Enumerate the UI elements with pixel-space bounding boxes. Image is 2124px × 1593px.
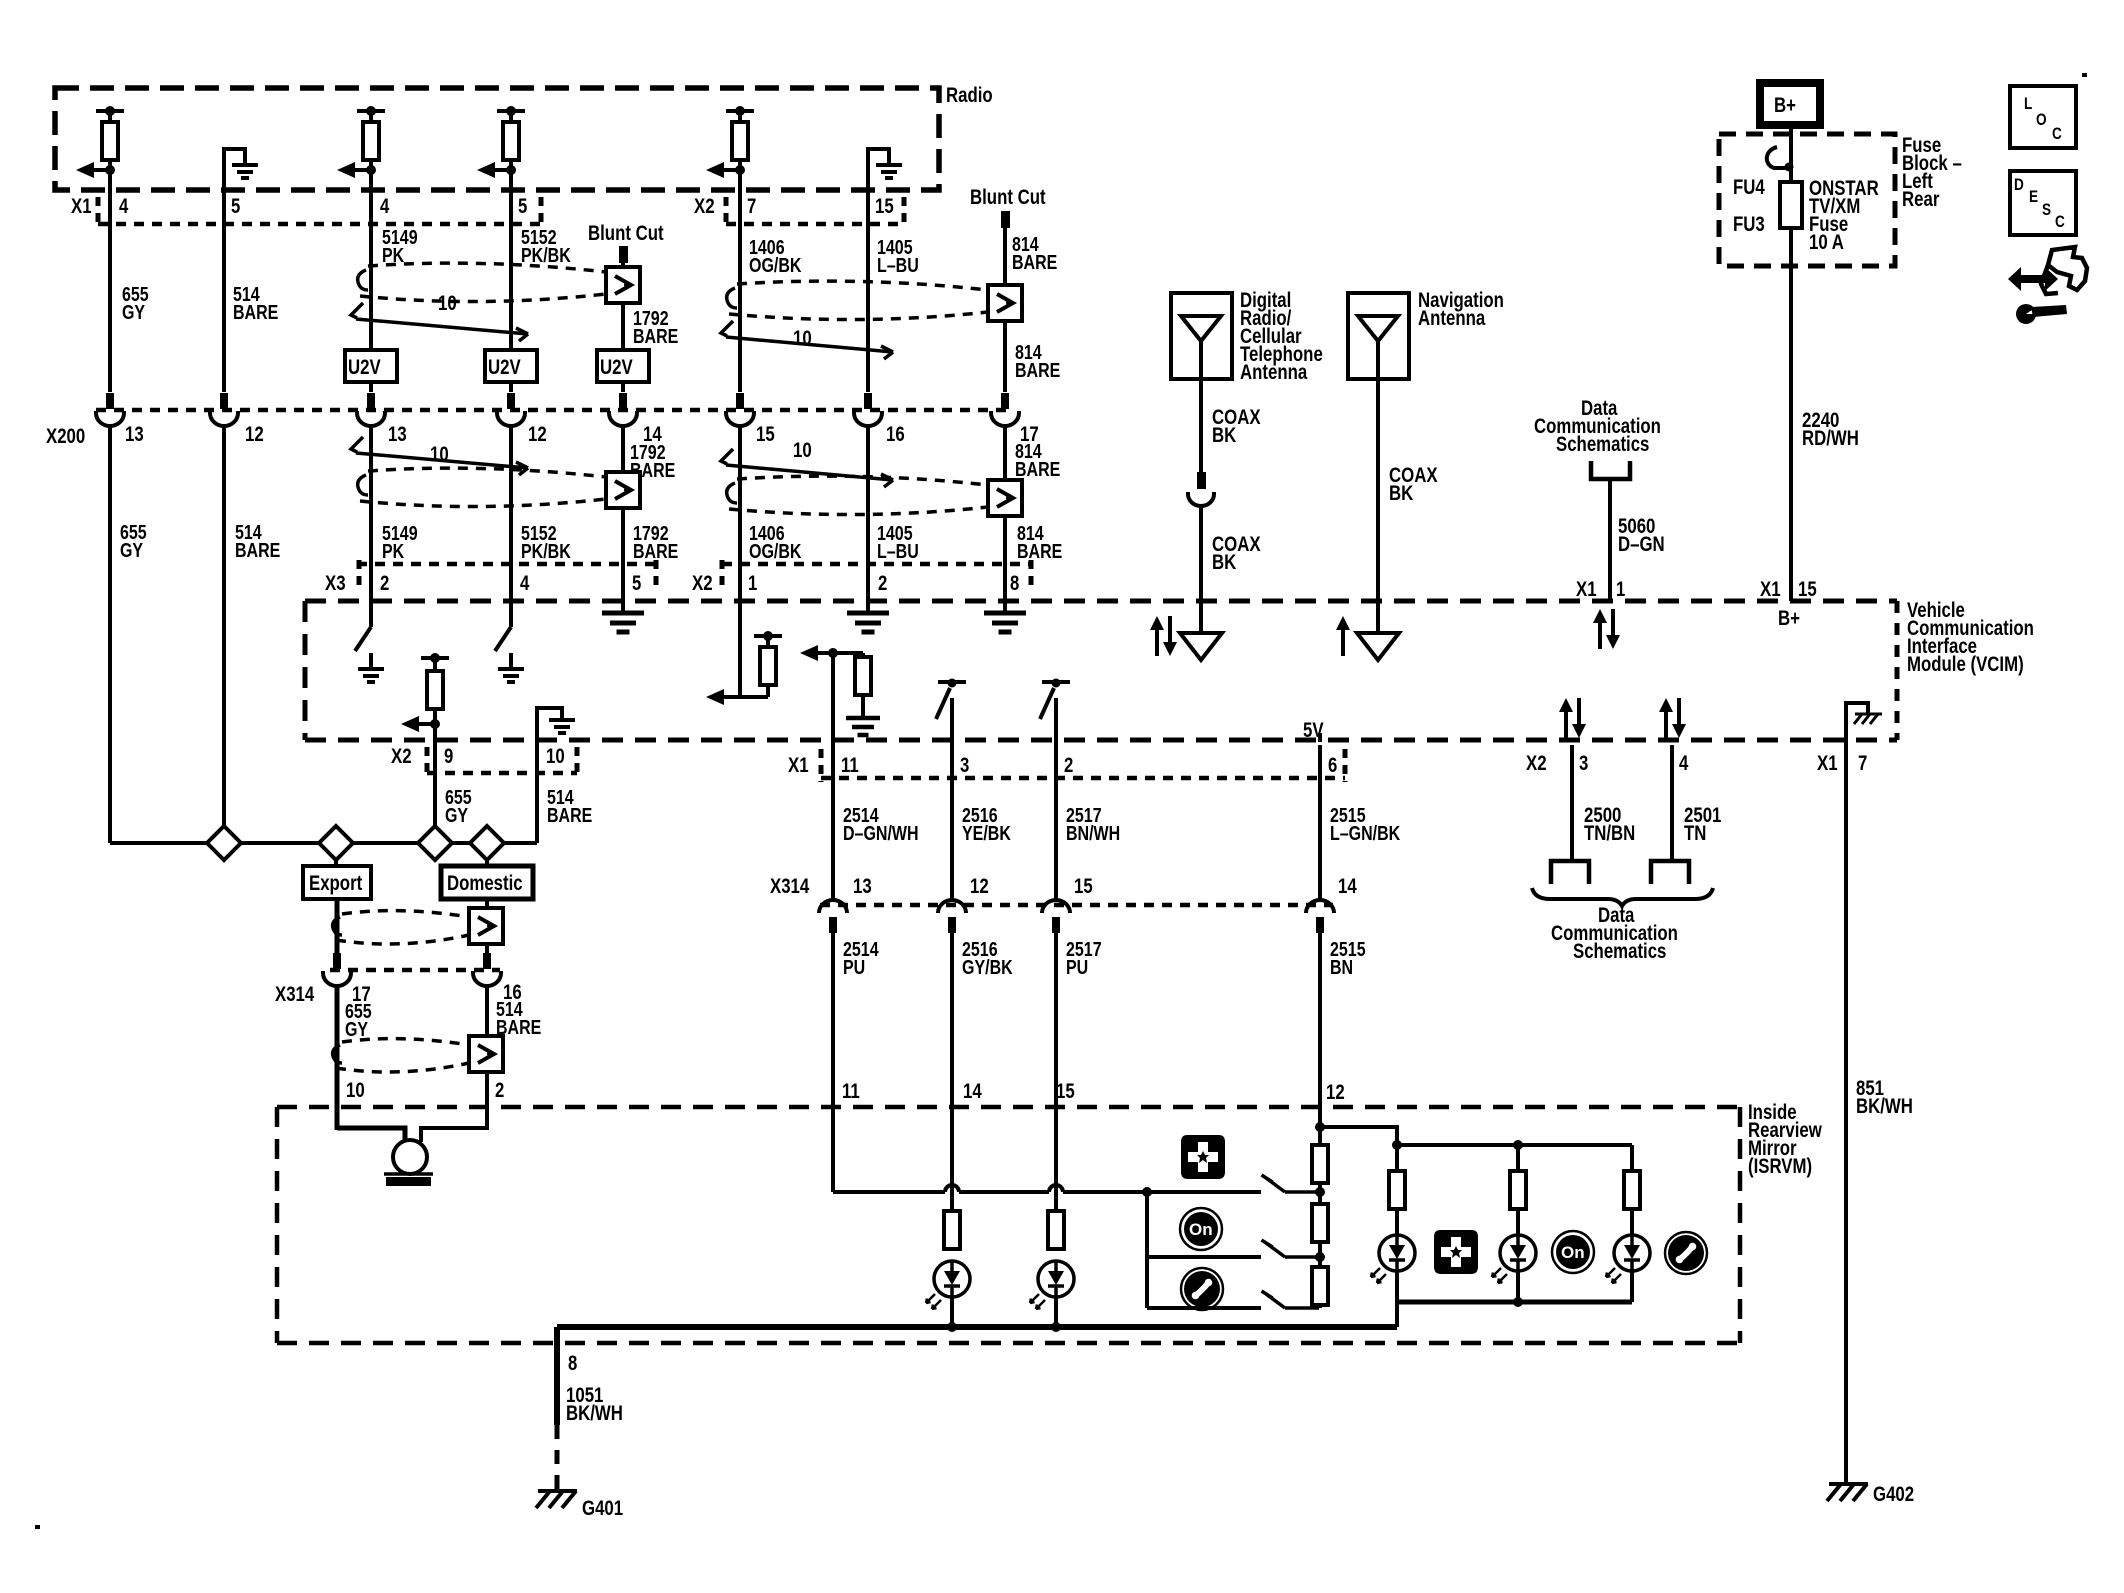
ground (5149) [369,653,373,668]
svg-text:12: 12 [970,875,989,898]
fuse block box [1719,134,1895,266]
hook contact in fuse block [1767,147,1789,168]
svg-text:Blunt Cut: Blunt Cut [588,222,664,245]
connector row X3 [357,562,656,567]
svg-text:BN: BN [1330,957,1353,979]
LED resistor (2516) [944,1211,960,1249]
shield drain box (1792 upper) [606,267,640,303]
X314 pin 16 [473,953,501,986]
wire 655 GY below X314 [335,984,340,1130]
wire 5152 break in VCIM [509,601,513,627]
X200 pin 12 (514) [210,393,238,426]
X200 pin 13 (655) [96,393,124,426]
X200 pin 13b (5149) [357,393,385,426]
svg-text:4: 4 [1679,752,1689,775]
wire 2240 RD/WH [1789,228,1793,601]
ground G402 [1827,1484,1868,1501]
wire 1405 L-BU radio-to-X200 [866,147,870,392]
off-page bracket (5060) [1591,461,1630,479]
wire 514 X2-10 with ground hook in VCIM [535,706,539,843]
ISRVM module box [277,1107,1740,1343]
svg-text:GY/BK: GY/BK [962,957,1013,979]
svg-text:14: 14 [1338,875,1357,898]
resistor in radio (1406) [726,111,754,122]
wire 514 BARE long (to splice) [222,424,226,826]
up-down arrows (X2-4) [1659,698,1673,738]
X314 pin 17 [323,953,351,986]
svg-text:10 A: 10 A [1809,231,1844,254]
X200 pin 15 (1406) [726,393,754,426]
coax wire digital antenna [1199,379,1203,489]
ground (1405) [847,613,889,632]
off-page bracket (2500) [1551,861,1589,884]
twisted pair shield ellipse (5149/5152 upper) [360,263,606,301]
svg-text:X200: X200 [46,425,85,448]
arrow out (5152) [506,165,516,175]
wire 5149 PK radio-to-X200 [369,158,373,392]
twisted leads arrow 10 (left upper) [351,303,528,341]
svg-text:L: L [2024,94,2032,113]
svg-text:PK/BK: PK/BK [521,245,571,267]
arrow out (5149) [366,165,376,175]
svg-text:X2: X2 [694,195,715,218]
twisted pair shield ellipse (1406/1405 upper) [729,281,988,319]
twisted pair shield ellipse (1406/1405 lower) [729,476,988,514]
svg-text:G401: G401 [582,1497,623,1520]
blunt cut stub 1792 [619,246,628,263]
twisted pair shield ellipse (5149/5152 lower) [360,468,606,506]
LED (2517) [1030,1261,1074,1309]
twisted leads arrow 10 (right lower) [721,449,893,487]
svg-text:X1: X1 [788,754,809,777]
B+ box [1760,83,1820,125]
svg-text:L–BU: L–BU [877,255,919,277]
svg-text:Antenna: Antenna [1418,307,1485,330]
chassis ground hook at X1-7 [1846,703,1868,742]
LED branch 2 [1516,1145,1520,1171]
svg-text:(ISRVM): (ISRVM) [1748,1155,1812,1178]
wire 1792 BARE to X3 [621,424,625,612]
switch 1 (emergency) [1262,1175,1320,1192]
chain resistor R1 [1312,1145,1328,1183]
svg-text:5: 5 [231,195,241,218]
svg-text:BARE: BARE [547,805,592,827]
svg-text:13: 13 [388,423,407,446]
svg-text:D–GN/WH: D–GN/WH [843,823,919,845]
resistor above X2-9 [421,658,449,671]
X314 pin 12 [938,900,966,933]
svg-text:PU: PU [843,957,865,979]
twisted shield ellipse (export upper) [336,911,469,944]
tiny dot bottom left [35,1525,40,1529]
LED branch 1 [1395,1145,1399,1171]
svg-text:BARE: BARE [233,302,278,324]
svg-text:10: 10 [546,745,565,768]
twisted leads arrow 10 (left lower) [351,437,528,475]
svg-text:X2: X2 [1526,752,1547,775]
LED bottom rail [1397,1300,1632,1305]
svg-text:8: 8 [568,1352,578,1375]
svg-text:6: 6 [1328,754,1337,777]
svg-text:2: 2 [878,572,887,595]
icon emergency cross (left) [1182,1136,1224,1178]
wire LED rail to bus [1395,1302,1399,1327]
wire 1406 OG/BK radio-to-X200 [738,158,742,392]
svg-text:10: 10 [430,443,449,466]
wire 1051 dashed to ground [555,1425,560,1490]
wire 2500 TN/BN [1570,745,1574,861]
svg-text:14: 14 [963,1080,982,1103]
svg-text:5: 5 [518,195,528,218]
svg-text:BARE: BARE [633,326,678,348]
splice diamond (export) [319,826,353,860]
svg-text:U2V: U2V [348,356,381,379]
switch common wire (from pin 11) [833,1190,945,1194]
svg-text:Blunt Cut: Blunt Cut [970,186,1046,209]
icon OnStar (right) [1552,1231,1594,1273]
svg-text:4: 4 [380,195,390,218]
ground (1792) [602,613,644,632]
svg-text:X1: X1 [71,195,92,218]
Domestic box [485,860,489,866]
svg-text:Schematics: Schematics [1573,940,1666,963]
svg-text:B+: B+ [1774,94,1796,117]
svg-text:9: 9 [444,745,453,768]
resistor in radio (655 output) [96,111,124,122]
svg-text:U2V: U2V [488,356,521,379]
svg-text:BARE: BARE [633,541,678,563]
shield drain box (export upper) [469,908,503,944]
svg-text:X2: X2 [391,745,412,768]
switch branch vertical [1145,1192,1149,1308]
U2V box (5152) [485,350,537,382]
wire 814 BARE to X2 [1003,424,1007,612]
svg-text:L–GN/BK: L–GN/BK [1330,823,1401,845]
svg-text:FU4: FU4 [1733,176,1765,199]
wire 2517 BN/WH [1054,745,1058,900]
svg-text:4: 4 [520,572,530,595]
shield drain box (814 lower) [988,480,1022,516]
wire 2514 from node to X1 pin 11 [831,653,835,745]
svg-text:X2: X2 [692,572,713,595]
digital radio antenna box [1171,293,1232,379]
svg-text:L–BU: L–BU [877,541,919,563]
wire 5149 PK to X3 [369,424,373,601]
svg-text:7: 7 [747,195,756,218]
wire 5060 D-GN [1608,479,1612,601]
svg-text:10: 10 [793,327,812,350]
coax wire navigation [1376,379,1380,633]
arrow out (655) [105,165,115,175]
U2V box (1792) [597,350,649,382]
svg-text:15: 15 [756,423,775,446]
wire 1406 OG/BK to X2 [738,424,742,697]
chain resistor R3 [1312,1267,1328,1305]
svg-text:2: 2 [495,1079,504,1102]
resistor in radio (5152) [497,111,525,122]
svg-text:15: 15 [1074,875,1093,898]
svg-text:15: 15 [1798,578,1817,601]
svg-text:BK: BK [1212,551,1236,574]
wire 2516 YE/BK [950,745,954,900]
svg-text:7: 7 [1858,752,1867,775]
svg-text:G402: G402 [1873,1483,1914,1506]
svg-text:Schematics: Schematics [1556,433,1649,456]
svg-text:5: 5 [632,572,642,595]
svg-text:RD/WH: RD/WH [1802,427,1859,450]
svg-text:FU3: FU3 [1733,213,1765,236]
wire 2516 GY/BK [950,933,954,1213]
svg-text:BK/WH: BK/WH [1856,1095,1913,1118]
switch wire 2 [1147,1255,1261,1259]
svg-text:BARE: BARE [1015,360,1060,382]
svg-text:TN: TN [1684,822,1706,845]
svg-text:10: 10 [793,439,812,462]
antenna input triangle (digital) [1180,633,1222,660]
svg-text:X1: X1 [1760,578,1781,601]
wire B+ to fuse [1789,125,1793,182]
svg-text:D: D [2014,175,2024,194]
blunt cut stub 814 [1001,211,1010,228]
svg-text:X1: X1 [1817,752,1838,775]
svg-text:X1: X1 [1576,578,1597,601]
svg-text:13: 13 [853,875,872,898]
ground hook in radio (1405) [868,149,889,164]
ISRVM ground bus [557,1324,1397,1330]
wire 851 BK/WH [1844,740,1848,1483]
svg-text:BARE: BARE [1017,541,1062,563]
up arrow (nav) [1336,616,1350,656]
off-page bracket (2501) [1651,861,1689,884]
svg-text:16: 16 [886,423,905,446]
wire 2514 PU [831,933,835,1192]
svg-text:Domestic: Domestic [447,872,523,895]
VCIM module box [305,601,1897,740]
microphone [393,1140,427,1174]
splice diamond (514) [207,826,241,860]
svg-text:11: 11 [842,1080,860,1103]
resistor in radio (5149) [357,111,385,122]
wire 2501 TN [1670,745,1674,861]
svg-text:E: E [2029,187,2038,206]
wire 2517 PU [1054,933,1058,1213]
svg-text:1: 1 [748,572,758,595]
wire 2514 D-GN/WH [831,745,835,900]
X200 pin 12b (5152) [497,393,525,426]
wire 514 BARE radio-to-X200 [222,147,226,392]
switch in VCIM (2517) [1040,682,1070,745]
X314 pin 15 [1042,900,1070,933]
svg-text:B+: B+ [1778,607,1800,630]
antenna input triangle (nav) [1357,633,1399,660]
ground hook in radio (514) [224,149,245,164]
inline coax connector [1197,472,1206,489]
DESC box [2010,171,2076,235]
svg-text:Export: Export [309,872,362,895]
LED (2516) [926,1261,970,1309]
splice bus wire [110,841,537,845]
svg-text:TN/BN: TN/BN [1584,822,1635,845]
svg-text:BARE: BARE [235,540,280,562]
resistor to ground (2514 node) [861,653,865,657]
svg-text:X3: X3 [325,572,346,595]
wire 514 BARE below X314 [485,984,489,1130]
svg-text:O: O [2036,110,2047,129]
svg-text:X314: X314 [275,983,314,1006]
shield drain box (1792 lower) [606,472,640,508]
svg-text:10: 10 [346,1079,365,1102]
Radio module box [55,88,939,190]
svg-text:OG/BK: OG/BK [749,541,802,563]
svg-text:U2V: U2V [600,356,633,379]
svg-text:BN/WH: BN/WH [1066,823,1120,845]
svg-text:PK/BK: PK/BK [521,541,571,563]
switch 3 (phone) [1262,1291,1320,1308]
svg-text:2: 2 [1064,754,1073,777]
wire 2515 L-GN/BK [1318,745,1322,900]
ground G401 [536,1491,577,1508]
wire 5152 PK/BK radio-to-X200 [509,158,513,392]
svg-text:3: 3 [960,754,969,777]
svg-text:15: 15 [1056,1080,1075,1103]
svg-text:GY: GY [122,302,146,324]
bus down to pin 8 [554,1327,560,1425]
curly brace [1532,888,1713,906]
X1-11 internal node with arrow [800,645,818,661]
ground (5152) [509,653,513,668]
svg-text:BK: BK [1212,424,1236,447]
svg-text:15: 15 [875,195,894,218]
wire 1405 L-BU to X2 [866,424,870,612]
svg-text:Module (VCIM): Module (VCIM) [1907,653,2024,676]
switch wire 3 [1147,1306,1261,1310]
arrow out (1406) [735,165,745,175]
switch in VCIM (2516) [936,682,966,745]
svg-text:X314: X314 [770,875,809,898]
switch 2 (onstar) [1262,1240,1320,1257]
svg-text:1: 1 [1616,578,1626,601]
svg-text:12: 12 [1326,1081,1345,1104]
up-down arrows (digital) [1150,616,1164,656]
svg-text:10: 10 [438,292,457,315]
svg-text:D–GN: D–GN [1618,533,1665,556]
svg-text:12: 12 [245,423,264,446]
arrow at X2-9 node [430,719,440,729]
ISRVM microphone wiring [337,1128,405,1142]
LED branch 3 [1630,1145,1634,1171]
svg-text:Antenna: Antenna [1240,361,1307,384]
wire 5152 PK/BK to X3 [509,424,513,601]
splice diamond (domestic) [470,826,504,860]
wire 5149 break in VCIM [369,601,373,627]
LED resistor (2517) [1048,1211,1064,1249]
svg-text:GY: GY [445,805,469,827]
svg-text:BK/WH: BK/WH [566,1402,623,1425]
svg-text:OG/BK: OG/BK [749,255,802,277]
wire 514 below Domestic [485,899,489,953]
svg-text:C: C [2055,212,2065,231]
svg-text:2: 2 [380,572,389,595]
wire 655 below Export [335,899,340,953]
svg-text:Radio: Radio [946,84,993,107]
twisted shield ellipse (export lower) [336,1039,469,1072]
up-down arrows (X2-3) [1559,698,1573,738]
X314 pin 14 [1306,900,1334,933]
ground (2514 node) [846,718,880,735]
wire 2515 BN [1318,933,1322,1127]
svg-text:13: 13 [125,423,144,446]
navigation antenna box [1348,293,1409,379]
svg-text:GY: GY [120,540,144,562]
wire 655 GY X2-9 to splice [433,709,437,826]
icon OnStar (left) [1180,1208,1222,1250]
connector row X2 (VCIM top) [722,562,1031,567]
ground (514 in VCIM) [549,720,575,733]
tiny dot top right [2082,73,2087,77]
svg-text:PU: PU [1066,957,1088,979]
svg-text:12: 12 [528,423,547,446]
X200 pin 16 (1405) [854,393,882,426]
U2V box (5149) [345,350,397,382]
svg-text:BK: BK [1389,482,1413,505]
icon phone (right) [1665,1232,1707,1274]
svg-text:4: 4 [119,195,129,218]
wire 655 GY long (to splice bus) [108,424,112,843]
X200 pin 17 (814) [991,393,1019,426]
svg-text:C: C [2052,124,2062,143]
svg-text:BARE: BARE [1015,459,1060,481]
svg-text:YE/BK: YE/BK [962,823,1011,845]
X314 pin 13 [819,900,847,933]
svg-text:8: 8 [1010,572,1020,595]
wire node A to LED rail [1320,1127,1397,1145]
svg-text:3: 3 [1579,752,1588,775]
twisted leads arrow 10 (right upper) [721,321,893,359]
1406 arrow termination [722,695,740,699]
LOC box [2010,86,2076,148]
svg-text:GY: GY [345,1019,369,1041]
X200 pin 14 (1792) [609,393,637,426]
svg-text:PK: PK [382,541,405,563]
chain resistor R2 [1312,1204,1328,1242]
connector X200 row [96,408,1008,413]
svg-text:Rear: Rear [1902,188,1939,211]
icon phone (left) [1181,1268,1223,1310]
fuse ONSTAR TV/XM 10A [1780,182,1802,228]
splice diamond (655) [418,826,452,860]
repair icon (arrow + wrench) [2041,247,2087,294]
Export box [334,860,338,866]
svg-text:S: S [2042,200,2051,219]
svg-text:11: 11 [841,754,859,777]
shield drain box (export lower) [469,1036,503,1072]
svg-text:BARE: BARE [1012,252,1057,274]
up-down arrows (X1-1) [1593,609,1607,649]
shield drain box (814 upper) [988,285,1022,321]
resistor to 1406 node [740,636,782,697]
wire 655 GY radio-to-X200 [108,158,112,392]
resistor chain node A [1315,1122,1325,1132]
icon emergency cross (right) [1435,1231,1477,1273]
ground (814) [984,613,1026,632]
LED top rail [1397,1143,1632,1147]
coax wire to VCIM [1199,505,1203,633]
